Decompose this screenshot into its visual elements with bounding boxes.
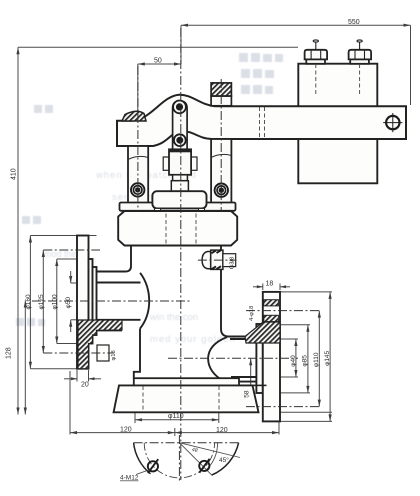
svg-text:φ100: φ100 xyxy=(52,294,59,309)
svg-text:φ110: φ110 xyxy=(168,413,184,420)
svg-text:120: 120 xyxy=(216,427,228,434)
svg-text:φ125: φ125 xyxy=(38,294,45,309)
svg-text:45°: 45° xyxy=(219,456,229,464)
svg-text:φ40: φ40 xyxy=(290,355,297,367)
svg-text:128: 128 xyxy=(6,347,13,359)
svg-text:58: 58 xyxy=(244,390,251,398)
svg-text:φ110: φ110 xyxy=(313,352,320,367)
svg-text:4-φ18: 4-φ18 xyxy=(249,306,255,321)
svg-text:φ160: φ160 xyxy=(25,294,32,309)
svg-text:410: 410 xyxy=(11,168,18,180)
svg-text:φ18: φ18 xyxy=(111,350,117,360)
svg-text:18: 18 xyxy=(266,281,274,288)
svg-text:550: 550 xyxy=(348,19,360,26)
svg-text:120: 120 xyxy=(120,427,132,434)
svg-text:4-M12: 4-M12 xyxy=(120,475,139,482)
svg-text:50: 50 xyxy=(154,58,162,65)
svg-text:φ145: φ145 xyxy=(324,350,331,365)
svg-text:win the con: win the con xyxy=(149,312,198,323)
svg-text:20: 20 xyxy=(81,382,89,389)
svg-text:φ85: φ85 xyxy=(302,355,309,367)
svg-text:G3/8: G3/8 xyxy=(229,257,235,270)
svg-text:48: 48 xyxy=(191,447,198,454)
svg-text:φ50: φ50 xyxy=(65,297,72,309)
